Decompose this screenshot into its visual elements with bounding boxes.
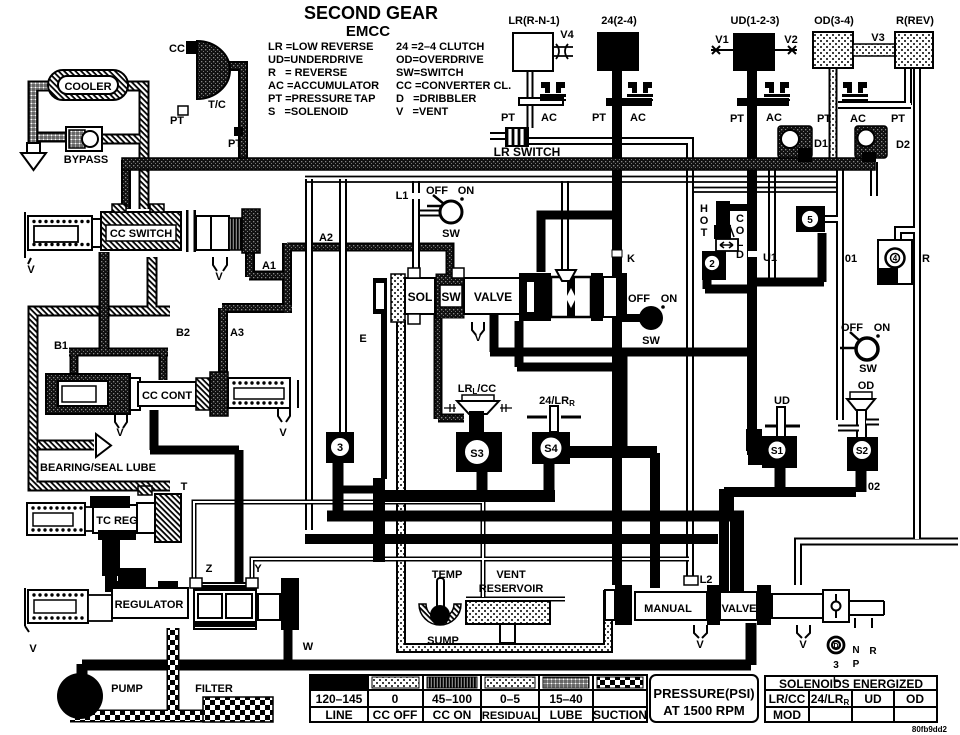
svg-text:OD: OD — [906, 692, 924, 706]
svg-text:BEARING/SEAL LUBE: BEARING/SEAL LUBE — [40, 462, 156, 474]
svg-text:LR(R-N-1): LR(R-N-1) — [508, 15, 560, 27]
svg-text:P: P — [853, 659, 860, 670]
svg-text:N: N — [852, 645, 859, 656]
svg-text:SECOND GEAR: SECOND GEAR — [304, 3, 438, 23]
svg-text:S2: S2 — [856, 446, 869, 457]
svg-text:L2: L2 — [700, 574, 713, 586]
svg-text:OD=OVERDRIVE: OD=OVERDRIVE — [396, 54, 484, 66]
svg-text:R: R — [922, 253, 930, 265]
svg-text:CC CONT: CC CONT — [142, 390, 192, 402]
svg-text:PT: PT — [228, 138, 242, 150]
svg-text:W: W — [303, 641, 314, 653]
svg-text:AC: AC — [850, 113, 866, 125]
svg-text:VENT: VENT — [496, 569, 526, 581]
svg-text:OFF: OFF — [841, 322, 863, 334]
svg-text:LR SWITCH: LR SWITCH — [494, 145, 561, 159]
svg-text:AC: AC — [630, 112, 646, 124]
svg-text:ON: ON — [458, 185, 475, 197]
svg-text:D2: D2 — [896, 139, 910, 151]
svg-text:LR =LOW REVERSE: LR =LOW REVERSE — [268, 41, 373, 53]
svg-text:VALVE: VALVE — [721, 603, 756, 615]
svg-text:AC: AC — [541, 112, 557, 124]
svg-text:A2: A2 — [319, 232, 333, 244]
svg-text:PT: PT — [730, 113, 744, 125]
svg-text:SW: SW — [441, 290, 461, 304]
svg-text:15–40: 15–40 — [549, 692, 583, 706]
svg-text:SW: SW — [642, 335, 660, 347]
svg-text:OFF: OFF — [628, 293, 650, 305]
svg-text:PT: PT — [592, 112, 606, 124]
svg-text:OD(3-4): OD(3-4) — [814, 15, 854, 27]
svg-text:A3: A3 — [230, 327, 244, 339]
svg-text:V: V — [799, 639, 807, 651]
svg-text:O: O — [736, 225, 745, 237]
svg-text:V: V — [215, 271, 223, 283]
svg-text:LINE: LINE — [325, 708, 352, 722]
svg-text:S3: S3 — [470, 448, 483, 460]
svg-text:V: V — [696, 639, 704, 651]
svg-text:UD=UNDERDRIVE: UD=UNDERDRIVE — [268, 54, 363, 66]
svg-text:T: T — [181, 481, 188, 493]
svg-text:SOLENOIDS ENERGIZED: SOLENOIDS ENERGIZED — [779, 677, 923, 691]
svg-text:V4: V4 — [560, 29, 574, 41]
svg-text:80fb9dd2: 80fb9dd2 — [912, 725, 948, 734]
svg-text:PUMP: PUMP — [111, 683, 143, 695]
svg-text:SOL: SOL — [408, 290, 433, 304]
svg-text:COOLER: COOLER — [64, 81, 111, 93]
svg-text:SW=SWITCH: SW=SWITCH — [396, 67, 464, 79]
svg-text:Y: Y — [254, 563, 262, 575]
svg-text:K: K — [627, 253, 635, 265]
svg-text:R: R — [869, 646, 877, 657]
svg-text:D: D — [833, 643, 838, 650]
svg-text:TC REG: TC REG — [96, 515, 138, 527]
svg-text:SUCTION: SUCTION — [593, 708, 647, 722]
svg-text:V2: V2 — [784, 34, 797, 46]
svg-text:24(2-4): 24(2-4) — [601, 15, 637, 27]
svg-text:SW: SW — [442, 228, 460, 240]
svg-text:T: T — [701, 227, 708, 239]
svg-text:PT: PT — [170, 115, 184, 127]
svg-text:TEMP: TEMP — [432, 569, 463, 581]
svg-text:S =SOLENOID: S =SOLENOID — [268, 106, 348, 118]
svg-text:PT: PT — [817, 113, 831, 125]
svg-text:CC OFF: CC OFF — [373, 708, 418, 722]
svg-text:D =DRIBBLER: D =DRIBBLER — [396, 93, 476, 105]
svg-text:D: D — [736, 249, 744, 261]
svg-text:LRL/CC: LRL/CC — [458, 383, 497, 396]
svg-text:O: O — [700, 215, 709, 227]
svg-text:T/C: T/C — [208, 99, 226, 111]
svg-text:UD(1-2-3): UD(1-2-3) — [731, 15, 780, 27]
svg-text:S4: S4 — [544, 443, 558, 455]
svg-text:PT: PT — [501, 112, 515, 124]
svg-text:120–145: 120–145 — [316, 692, 363, 706]
svg-text:D1: D1 — [814, 138, 828, 150]
svg-text:B2: B2 — [176, 327, 190, 339]
svg-text:VALVE: VALVE — [474, 290, 512, 304]
svg-text:CC: CC — [169, 43, 185, 55]
svg-text:A1: A1 — [262, 260, 276, 272]
svg-text:V: V — [116, 427, 124, 439]
svg-text:LR/CC: LR/CC — [769, 692, 806, 706]
svg-text:ON: ON — [661, 293, 678, 305]
svg-text:H: H — [700, 203, 708, 215]
svg-text:E: E — [359, 333, 366, 345]
svg-text:0: 0 — [392, 692, 399, 706]
svg-text:FILTER: FILTER — [195, 683, 233, 695]
svg-text:5: 5 — [807, 215, 813, 226]
svg-text:U1: U1 — [763, 252, 777, 264]
svg-text:AT 1500 RPM: AT 1500 RPM — [663, 703, 744, 718]
svg-text:V3: V3 — [871, 32, 884, 44]
svg-text:RESERVOIR: RESERVOIR — [479, 583, 544, 595]
svg-text:3: 3 — [833, 660, 839, 671]
svg-text:2: 2 — [709, 259, 715, 270]
svg-text:AC =ACCUMULATOR: AC =ACCUMULATOR — [268, 80, 379, 92]
svg-text:REGULATOR: REGULATOR — [115, 599, 184, 611]
svg-text:B1: B1 — [54, 340, 68, 352]
svg-text:24 =2–4 CLUTCH: 24 =2–4 CLUTCH — [396, 41, 484, 53]
svg-text:MOD: MOD — [773, 708, 801, 722]
svg-text:CC SWITCH: CC SWITCH — [110, 228, 172, 240]
svg-text:V1: V1 — [715, 34, 728, 46]
svg-text:AC: AC — [766, 112, 782, 124]
svg-text:01: 01 — [845, 253, 857, 265]
svg-text:R = REVERSE: R = REVERSE — [268, 67, 347, 79]
svg-text:45–100: 45–100 — [432, 692, 472, 706]
svg-text:OD: OD — [858, 380, 875, 392]
svg-text:UD: UD — [774, 395, 790, 407]
svg-text:L1: L1 — [396, 190, 409, 202]
svg-text:CC =CONVERTER CL.: CC =CONVERTER CL. — [396, 80, 511, 92]
svg-text:C: C — [736, 213, 744, 225]
svg-text:PT: PT — [891, 113, 905, 125]
svg-text:ON: ON — [874, 322, 891, 334]
svg-text:CC ON: CC ON — [433, 708, 472, 722]
svg-text:Z: Z — [206, 563, 213, 575]
svg-text:RESIDUAL: RESIDUAL — [482, 710, 539, 722]
svg-text:S1: S1 — [771, 446, 784, 457]
svg-text:V: V — [29, 643, 37, 655]
svg-text:EMCC: EMCC — [346, 23, 390, 40]
svg-text:UD: UD — [864, 692, 882, 706]
svg-text:LUBE: LUBE — [550, 708, 583, 722]
svg-text:R(REV): R(REV) — [896, 15, 934, 27]
svg-text:PT =PRESSURE TAP: PT =PRESSURE TAP — [268, 93, 375, 105]
svg-text:3: 3 — [337, 442, 343, 454]
svg-text:SW: SW — [859, 363, 877, 375]
svg-text:BYPASS: BYPASS — [64, 154, 108, 166]
svg-text:02: 02 — [868, 481, 880, 493]
svg-text:0–5: 0–5 — [500, 692, 520, 706]
svg-text:L: L — [737, 237, 744, 249]
svg-text:MANUAL: MANUAL — [644, 603, 692, 615]
svg-text:V: V — [474, 332, 482, 344]
svg-text:PRESSURE(PSI): PRESSURE(PSI) — [653, 686, 754, 701]
svg-text:OFF: OFF — [426, 185, 448, 197]
svg-text:4: 4 — [893, 254, 898, 263]
svg-text:SUMP: SUMP — [427, 635, 459, 647]
svg-text:V: V — [279, 427, 287, 439]
svg-text:V: V — [27, 264, 35, 276]
svg-text:V =VENT: V =VENT — [396, 106, 449, 118]
